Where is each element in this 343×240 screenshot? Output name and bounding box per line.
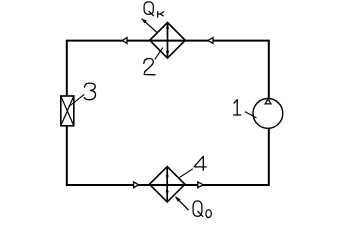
expansion valve U3 body [61, 96, 74, 126]
condenser U2 diamond [150, 23, 186, 59]
evaporator U4 inner arrow line [166, 168, 168, 201]
label 1 [234, 100, 241, 115]
label Q0 letter Q tail [198, 211, 204, 217]
condenser U2 inner arrowhead up [166, 23, 169, 29]
label 2 [144, 58, 155, 74]
label 4 [194, 156, 206, 170]
heat arrow Qk line [142, 19, 158, 33]
label Qk letter Q tail [149, 11, 154, 16]
heat arrow Qk head [141, 18, 147, 23]
label 4 leader [179, 169, 193, 178]
heat arrow Q0 head [175, 196, 181, 202]
heat arrow Q0 line [176, 197, 189, 210]
label Qk letter Q [144, 2, 153, 14]
label Q0 subscript 0 [206, 210, 211, 218]
compressor U1 circle [253, 99, 283, 129]
evaporator U4 inner arrowhead up [166, 187, 169, 192]
evaporator U4 diamond [150, 167, 185, 202]
flow arrow top-left [122, 38, 127, 44]
label Q0 letter Q [193, 201, 202, 216]
expansion valve U3 cross [61, 96, 74, 126]
flow arrow top-right [208, 38, 213, 44]
label 3 leader [69, 94, 84, 106]
flow arrow bottom-left [134, 182, 139, 188]
condenser U2 inner arrowhead down [166, 51, 169, 57]
compressor U1 triangle [265, 99, 271, 104]
label 2 leader [155, 48, 163, 60]
wire loop [67, 41, 269, 185]
label Qk subscript k [158, 12, 164, 18]
evaporator U4 inner arrowhead down [166, 175, 169, 180]
flow arrow bottom-right [198, 182, 203, 188]
label 1 leader [245, 112, 257, 118]
label 3 [84, 83, 95, 100]
condenser U2 inner arrow line [167, 24, 169, 58]
